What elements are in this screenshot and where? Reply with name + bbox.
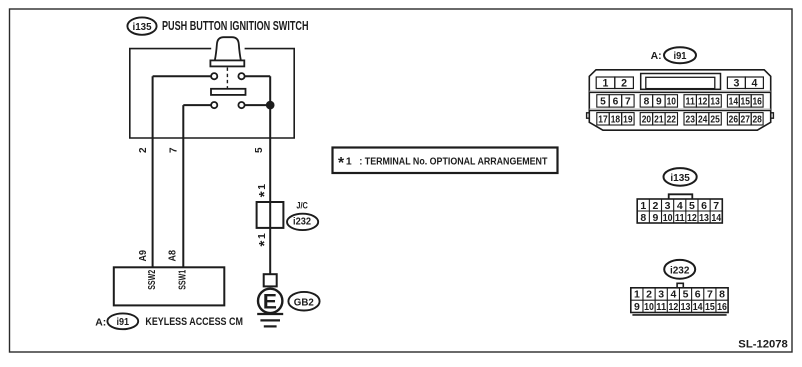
i91 pin 17 <box>597 113 609 125</box>
svg-text:*: * <box>256 191 273 197</box>
svg-text:A9: A9 <box>138 250 149 262</box>
wire: lower-right contact to junction <box>244 104 270 106</box>
svg-text:i135: i135 <box>670 172 690 184</box>
i91 right lock tab <box>771 113 774 118</box>
svg-text:13: 13 <box>699 212 709 224</box>
svg-text:i91: i91 <box>674 51 687 62</box>
svg-text:7: 7 <box>625 97 631 108</box>
i91 pin 25 <box>709 113 721 125</box>
svg-text:*: * <box>256 241 273 247</box>
i91 pin 15 <box>739 95 751 107</box>
button bar (plunger) <box>210 60 244 66</box>
i91 pin 18 <box>609 113 621 125</box>
connector oval i232 (pinout) <box>664 260 695 279</box>
svg-text:3: 3 <box>665 200 671 212</box>
i91 pin 23 <box>684 113 696 125</box>
wire: upper-right contact to wire 5 <box>244 75 270 77</box>
i232 top tab <box>677 283 683 288</box>
svg-text:11: 11 <box>675 212 685 224</box>
svg-text:5: 5 <box>254 147 265 153</box>
wire: lower-left contact to wire 7 <box>183 104 212 106</box>
label *1 (below J/C) <box>256 233 273 247</box>
svg-text:22: 22 <box>667 115 677 126</box>
i91 pin 7 <box>622 95 634 107</box>
svg-text:14: 14 <box>693 301 703 313</box>
i91 pin 1 <box>596 77 615 89</box>
svg-text:E: E <box>263 291 277 314</box>
svg-text:9: 9 <box>653 212 659 224</box>
svg-text:28: 28 <box>752 115 762 126</box>
i91 pin 2 <box>615 77 634 89</box>
svg-text:1: 1 <box>640 200 646 212</box>
svg-text:8: 8 <box>644 97 650 108</box>
dashed actuator link <box>226 68 228 89</box>
svg-text:5: 5 <box>689 200 695 212</box>
svg-text:10: 10 <box>663 212 673 224</box>
svg-text:25: 25 <box>710 115 720 126</box>
switch enclosure box <box>130 49 294 138</box>
svg-text:13: 13 <box>710 97 720 108</box>
svg-text:11: 11 <box>656 301 666 313</box>
svg-text:8: 8 <box>640 212 646 224</box>
svg-text:: TERMINAL No. OPTIONAL ARRANG: : TERMINAL No. OPTIONAL ARRANGEMENT <box>359 157 548 168</box>
svg-text:1: 1 <box>257 184 268 190</box>
svg-text:SL-12078: SL-12078 <box>738 339 788 351</box>
svg-text:1: 1 <box>346 157 352 168</box>
junction connector J/C box <box>257 202 284 228</box>
i91 keyway (double rectangle) <box>641 74 721 90</box>
svg-text:16: 16 <box>752 97 762 108</box>
svg-text:i232: i232 <box>670 264 690 276</box>
svg-text:15: 15 <box>741 97 751 108</box>
svg-text:A8: A8 <box>168 250 179 262</box>
svg-text:14: 14 <box>711 212 721 224</box>
i91 pin 6 <box>609 95 621 107</box>
wire: upper-left contact to wire 2 <box>153 75 212 77</box>
i91 pin 13 <box>709 95 721 107</box>
svg-text:SSW2: SSW2 <box>147 270 158 290</box>
svg-text:8: 8 <box>719 289 725 301</box>
i91 pin 4 <box>745 77 763 89</box>
svg-text:4: 4 <box>677 200 683 212</box>
label *1 (above J/C) <box>256 184 273 198</box>
svg-text:27: 27 <box>741 115 751 126</box>
i91 left lock tab <box>587 113 590 118</box>
note box <box>333 148 558 174</box>
svg-text:7: 7 <box>169 147 180 153</box>
wire 7 (vertical) <box>182 105 184 267</box>
junction dot on wire 5 <box>266 101 275 110</box>
i91 pin 11 <box>684 95 696 107</box>
svg-text:6: 6 <box>695 289 701 301</box>
push button cap <box>215 37 241 60</box>
svg-text:19: 19 <box>623 115 633 126</box>
svg-text:15: 15 <box>705 301 715 313</box>
svg-text:2: 2 <box>653 200 659 212</box>
svg-text:24: 24 <box>698 115 708 126</box>
i91 separator lines row2/row3 <box>589 108 770 110</box>
contact circle upper-left <box>211 73 217 79</box>
i91 pin 10 <box>665 95 677 107</box>
i91 pin 21 <box>653 113 665 125</box>
connector oval i135 (top) <box>127 17 156 34</box>
svg-text:1: 1 <box>603 78 609 90</box>
connector oval i91 (keyless) <box>107 313 138 329</box>
i91 pin 8 <box>640 95 652 107</box>
ground connector square <box>264 274 277 286</box>
i91 pin 26 <box>727 113 739 125</box>
svg-text:13: 13 <box>681 301 691 313</box>
svg-text:i91: i91 <box>117 317 130 328</box>
i91 pin 22 <box>665 113 677 125</box>
svg-text:21: 21 <box>654 115 664 126</box>
svg-text:i135: i135 <box>133 21 152 33</box>
svg-text:KEYLESS ACCESS CM: KEYLESS ACCESS CM <box>145 316 243 328</box>
svg-text:17: 17 <box>598 115 608 126</box>
svg-text:10: 10 <box>667 97 677 108</box>
i91 pin 14 <box>727 95 739 107</box>
svg-text:26: 26 <box>729 115 739 126</box>
wire 5 (vertical) <box>269 76 271 274</box>
svg-text:9: 9 <box>656 97 662 108</box>
svg-text:11: 11 <box>686 97 696 108</box>
svg-text:12: 12 <box>698 97 708 108</box>
i91 pin 20 <box>640 113 652 125</box>
i91 pin 5 <box>597 95 609 107</box>
svg-text:20: 20 <box>642 115 652 126</box>
contact circle lower-left <box>211 102 217 108</box>
i232 connector grid <box>631 288 728 313</box>
svg-text:J/C: J/C <box>296 201 308 211</box>
i91 pin 12 <box>696 95 708 107</box>
svg-text:A:: A: <box>651 51 662 62</box>
i91 pin 16 <box>751 95 763 107</box>
contact circle lower-right <box>238 102 244 108</box>
svg-text:12: 12 <box>687 212 697 224</box>
connector oval i232 (at J/C) <box>287 214 318 230</box>
contact circle upper-right <box>238 73 244 79</box>
ground symbol circle E <box>258 289 282 313</box>
ground stroke 1 <box>257 313 283 315</box>
keyless access CM box <box>114 267 225 305</box>
svg-text:10: 10 <box>644 301 654 313</box>
svg-text:4: 4 <box>670 289 676 301</box>
i135 top tab <box>669 194 693 199</box>
i135 connector grid <box>637 199 722 223</box>
svg-text:14: 14 <box>729 97 739 108</box>
svg-text:4: 4 <box>751 78 757 90</box>
i91 pin 27 <box>739 113 751 125</box>
i232 bottom flange <box>632 314 726 316</box>
svg-text:3: 3 <box>658 289 664 301</box>
svg-text:18: 18 <box>611 115 621 126</box>
ground stroke 2 <box>260 319 280 321</box>
svg-text:7: 7 <box>707 289 713 301</box>
svg-text:16: 16 <box>717 301 727 313</box>
i91 pin 3 <box>727 77 745 89</box>
svg-text:6: 6 <box>701 200 707 212</box>
svg-text:5: 5 <box>683 289 689 301</box>
svg-text:2: 2 <box>621 78 627 90</box>
i91 pin 19 <box>622 113 634 125</box>
svg-text:5: 5 <box>600 97 606 108</box>
svg-text:2: 2 <box>138 147 149 153</box>
svg-text:GB2: GB2 <box>294 297 314 308</box>
svg-text:3: 3 <box>733 78 739 90</box>
svg-text:12: 12 <box>668 301 678 313</box>
wire 2 (vertical) <box>152 76 154 267</box>
svg-text:1: 1 <box>634 289 640 301</box>
svg-text:7: 7 <box>713 200 719 212</box>
svg-text:*: * <box>338 155 345 172</box>
svg-text:A:: A: <box>95 317 106 328</box>
i91 pin 9 <box>653 95 665 107</box>
ground stroke 3 <box>264 325 277 327</box>
i91 separator lines row1/row2 <box>589 90 770 92</box>
svg-text:PUSH BUTTON IGNITION SWITCH: PUSH BUTTON IGNITION SWITCH <box>162 19 309 33</box>
connector oval i135 (pinout) <box>664 168 697 186</box>
svg-text:23: 23 <box>686 115 696 126</box>
svg-text:9: 9 <box>634 301 640 313</box>
ground oval GB2 <box>288 292 319 311</box>
svg-text:2: 2 <box>646 289 652 301</box>
connector i91 body outline <box>589 70 770 130</box>
i91 pin 24 <box>696 113 708 125</box>
svg-text:SSW1: SSW1 <box>177 269 188 289</box>
moving contact bar <box>211 89 246 95</box>
svg-text:i232: i232 <box>293 217 311 228</box>
i91 pin 28 <box>751 113 763 125</box>
svg-text:6: 6 <box>613 97 619 108</box>
connector oval i91 (pinout) <box>664 47 696 63</box>
svg-text:1: 1 <box>257 233 268 239</box>
